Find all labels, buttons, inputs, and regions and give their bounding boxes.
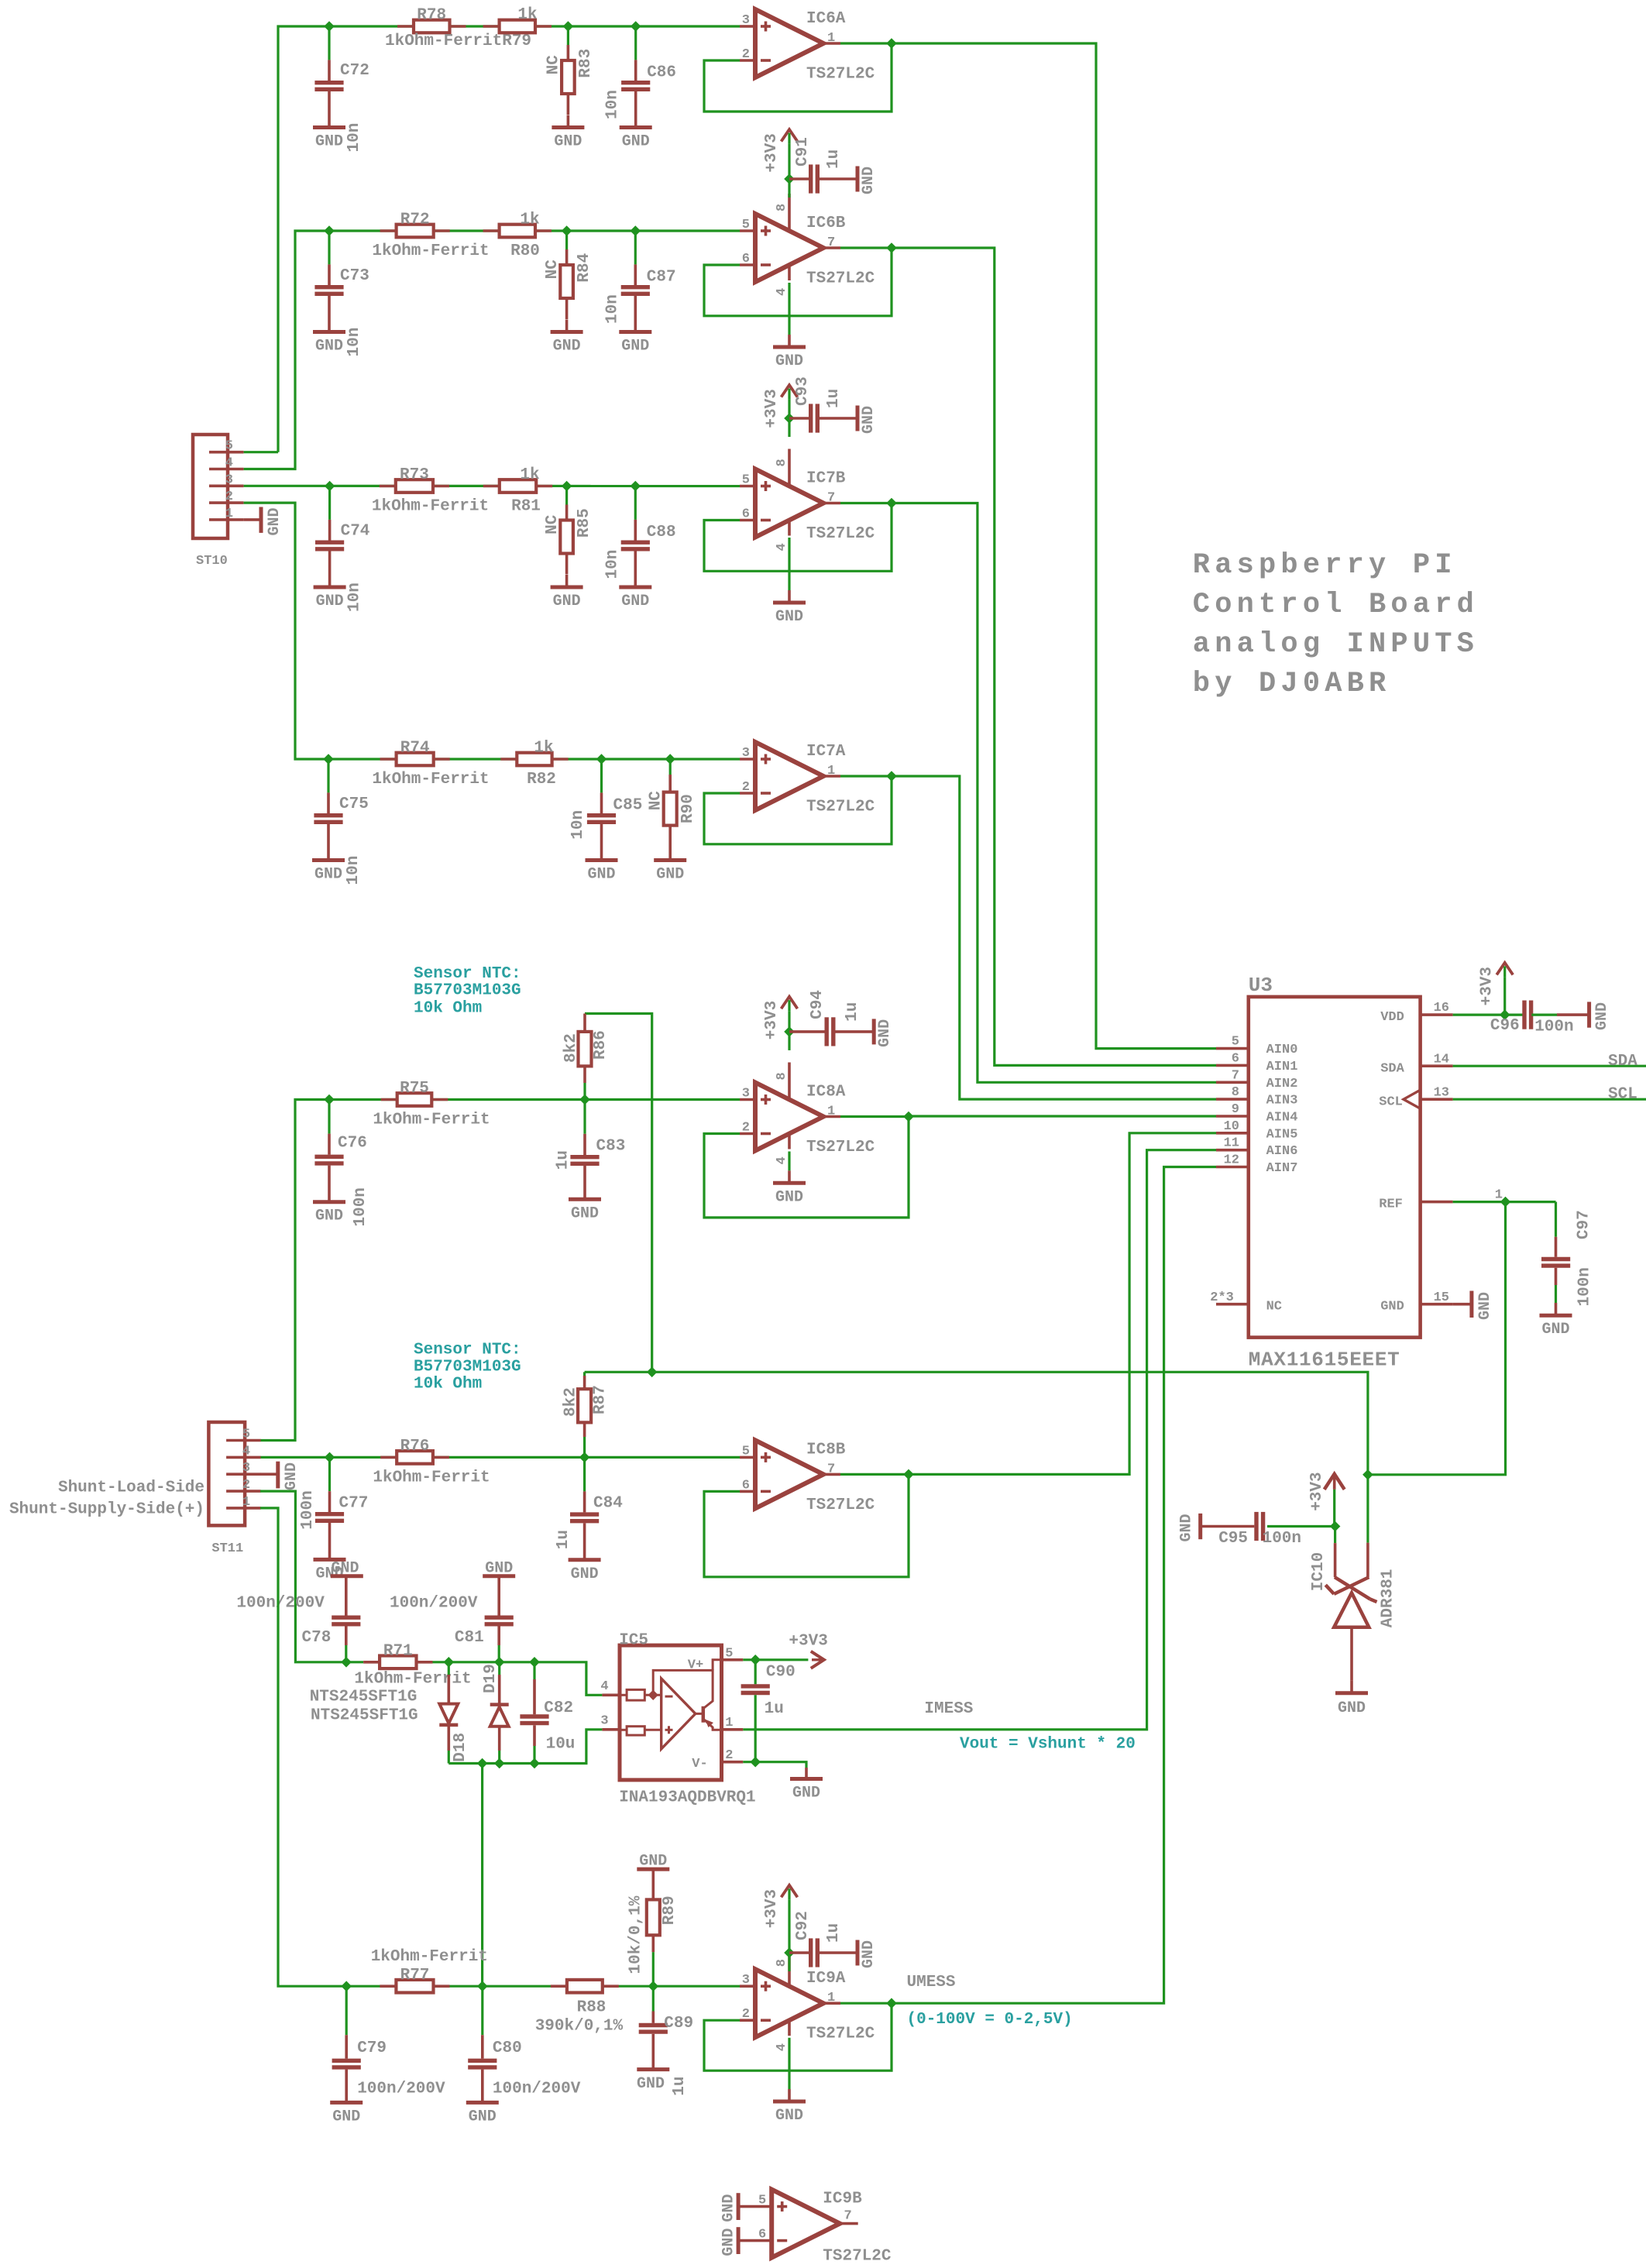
svg-text:GND: GND — [720, 2194, 738, 2222]
svg-text:R80: R80 — [510, 242, 540, 260]
svg-text:6: 6 — [742, 1478, 750, 1493]
svg-text:UMESS: UMESS — [907, 1974, 956, 1991]
svg-text:GND: GND — [860, 167, 878, 194]
svg-text:TS27L2C: TS27L2C — [806, 270, 875, 288]
svg-text:1kOhm-Ferrit: 1kOhm-Ferrit — [373, 1469, 490, 1486]
svg-text:R88: R88 — [577, 1999, 607, 2017]
capacitor C86 — [604, 26, 676, 128]
svg-text:C89: C89 — [664, 2015, 693, 2033]
resistor R71 — [354, 1642, 471, 1688]
svg-text:C96: C96 — [1490, 1017, 1520, 1035]
svg-text:10n: 10n — [603, 550, 621, 579]
svg-text:V-: V- — [692, 1757, 707, 1771]
note Sensor NTC 1 — [414, 965, 521, 1018]
IC U3 MAX11615EEET — [1210, 974, 1503, 1372]
svg-text:1u: 1u — [844, 1002, 861, 1022]
svg-text:GND: GND — [621, 338, 649, 356]
svg-text:AIN4: AIN4 — [1266, 1111, 1298, 1125]
svg-text:8k2: 8k2 — [562, 1033, 580, 1063]
capacitor C91 — [789, 137, 857, 193]
svg-text:GND: GND — [1541, 1321, 1569, 1338]
svg-text:5: 5 — [742, 1444, 750, 1459]
resistor R78 — [397, 7, 466, 33]
junction at (690,2276) — [529, 1758, 540, 1769]
op-amp IC7A — [740, 742, 875, 816]
svg-text:C83: C83 — [596, 1138, 626, 1156]
svg-text:GND: GND — [1178, 1514, 1196, 1541]
svg-text:GND: GND — [720, 2228, 738, 2256]
wire feedback loop — [704, 1474, 909, 1576]
junction at (843,2564) — [648, 1981, 659, 1991]
svg-text:GND: GND — [860, 406, 878, 434]
svg-text:GND: GND — [860, 1940, 878, 1968]
svg-text:GND: GND — [775, 1188, 803, 1206]
svg-text:10k Ohm: 10k Ohm — [414, 999, 482, 1017]
svg-text:NC: NC — [544, 259, 562, 280]
svg-text:GND: GND — [775, 352, 803, 370]
junction at (426,628) — [325, 481, 335, 492]
svg-text:1u: 1u — [555, 1530, 572, 1549]
svg-text:MAX11615EEET: MAX11615EEET — [1249, 1349, 1400, 1372]
wire IC8A output — [840, 1115, 909, 1118]
svg-text:U3: U3 — [1249, 974, 1273, 997]
resistor R77 — [371, 1948, 488, 1993]
wire diode clamp to IC5 pin3 — [448, 1730, 602, 1764]
svg-text:C84: C84 — [593, 1495, 623, 1513]
svg-text:7: 7 — [827, 235, 835, 250]
resistor R80 — [483, 211, 552, 261]
svg-text:AIN1: AIN1 — [1266, 1060, 1298, 1074]
junction at (1151,1002) — [886, 771, 897, 782]
svg-text:C92: C92 — [794, 1911, 812, 1940]
ground — [551, 575, 583, 610]
svg-text:ADR381: ADR381 — [1379, 1569, 1397, 1628]
junction at (424,980) — [323, 754, 334, 765]
svg-text:NC: NC — [647, 791, 665, 811]
junction at (1766,1904) — [1363, 1469, 1373, 1480]
svg-text:5: 5 — [1232, 1035, 1239, 1050]
junction at (1173,1442) — [903, 1112, 914, 1122]
svg-text:8: 8 — [775, 204, 789, 211]
svg-text:Control Board: Control Board — [1193, 589, 1479, 621]
svg-text:IC5: IC5 — [619, 1631, 648, 1649]
junction at (1944,1552) — [1500, 1197, 1511, 1208]
resistor R87 — [562, 1372, 610, 1457]
svg-text:4: 4 — [775, 288, 789, 296]
wire ST11 pin2 to R71 — [260, 1491, 346, 1662]
svg-text:NTS245SFT1G: NTS245SFT1G — [310, 1689, 418, 1706]
junction at (579,2146) — [444, 1657, 455, 1668]
svg-text:IC10: IC10 — [1310, 1552, 1328, 1591]
svg-text:5: 5 — [742, 473, 750, 488]
svg-text:2: 2 — [742, 47, 750, 62]
junction at (447,2564) — [341, 1981, 352, 1991]
svg-text:Shunt-Load-Side: Shunt-Load-Side — [58, 1479, 204, 1497]
svg-text:INA193AQDBVRQ1: INA193AQDBVRQ1 — [619, 1789, 755, 1807]
wire net SCL — [1453, 1098, 1646, 1101]
capacitor C78 — [236, 1559, 363, 1661]
svg-text:GND: GND — [775, 2107, 803, 2125]
svg-text:ST11: ST11 — [211, 1541, 243, 1556]
wire REF to NTC pullups — [585, 1372, 1368, 1475]
wire net AIN4 — [909, 1115, 1216, 1117]
svg-text:C95: C95 — [1218, 1530, 1248, 1548]
junction at (1151,320) — [886, 242, 897, 253]
svg-text:IC9A: IC9A — [806, 1970, 846, 1988]
svg-text:+3V3: +3V3 — [763, 1001, 781, 1039]
svg-text:1: 1 — [827, 764, 835, 778]
svg-text:3: 3 — [225, 472, 233, 487]
junction at (865,980) — [665, 754, 675, 765]
svg-text:C76: C76 — [338, 1135, 367, 1153]
svg-text:GND: GND — [283, 1462, 301, 1490]
capacitor C95 — [1201, 1512, 1335, 1548]
junction at (690,2146) — [529, 1657, 540, 1668]
svg-text:C91: C91 — [794, 137, 812, 167]
resistor R88 — [535, 1980, 624, 2036]
wire net AIN1 — [892, 248, 1216, 1065]
junction at (732,298) — [562, 225, 572, 236]
wire +3V3 to VDD — [1503, 977, 1506, 1015]
wire ST11 pin5 to IC8A input — [260, 1100, 740, 1441]
ground (U3 pin 15) — [1453, 1291, 1494, 1321]
svg-text:D18: D18 — [452, 1733, 469, 1762]
svg-text:TS27L2C: TS27L2C — [806, 799, 875, 816]
resistor R81 — [483, 466, 552, 516]
svg-text:SDA: SDA — [1608, 1053, 1637, 1070]
ground — [637, 2070, 669, 2094]
capacitor C74 — [315, 486, 369, 613]
wire IC6A output — [840, 42, 892, 44]
svg-text:2: 2 — [225, 490, 233, 504]
op-amp IC6B — [740, 194, 875, 296]
svg-text:1u: 1u — [554, 1150, 572, 1170]
svg-text:2: 2 — [742, 1121, 750, 1136]
wire +3V3 to junction — [788, 1899, 790, 1953]
junction at (1019,1332) — [784, 1026, 795, 1037]
svg-text:3: 3 — [242, 1461, 250, 1476]
svg-text:1: 1 — [725, 1716, 733, 1730]
wire ST11 pin1 to IC9A input — [260, 1508, 740, 1986]
svg-text:1u: 1u — [765, 1700, 784, 1718]
wire IC7B pin4 to GND — [788, 538, 790, 590]
wire IC8A pin4 to GND — [788, 1152, 790, 1171]
op-amp IC8B — [740, 1440, 875, 1514]
svg-text:100n: 100n — [1263, 1530, 1301, 1548]
wire IC9A pin4 to GND — [788, 2038, 790, 2089]
svg-text:1: 1 — [827, 1105, 835, 1119]
title text — [1193, 549, 1479, 700]
svg-text:100n/200V: 100n/200V — [493, 2080, 581, 2098]
svg-text:GND: GND — [553, 338, 581, 356]
svg-text:6: 6 — [758, 2228, 766, 2242]
svg-text:1kOhm-Ferrit: 1kOhm-Ferrit — [372, 242, 489, 260]
svg-text:100n/200V: 100n/200V — [236, 1594, 325, 1612]
svg-text:10n: 10n — [603, 294, 621, 324]
svg-text:R85: R85 — [576, 508, 593, 538]
supply +3V3 — [763, 997, 798, 1040]
svg-text:R76: R76 — [400, 1438, 430, 1455]
svg-text:IC7A: IC7A — [806, 743, 846, 761]
svg-text:IC8A: IC8A — [806, 1084, 846, 1101]
ground — [773, 1170, 806, 1206]
svg-text:TS27L2C: TS27L2C — [806, 525, 875, 543]
wire IC5 V- to GND — [743, 1762, 806, 1768]
svg-text:GND: GND — [656, 866, 684, 884]
svg-text:100n/200V: 100n/200V — [390, 1594, 478, 1612]
junction at (1943,1310) — [1500, 1009, 1510, 1020]
svg-text:1: 1 — [827, 1991, 835, 2005]
junction at (1019,2521) — [784, 1947, 795, 1958]
svg-text:5: 5 — [242, 1428, 250, 1442]
svg-text:GND: GND — [876, 1019, 894, 1047]
capacitor C84 — [555, 1457, 623, 1559]
svg-text:15: 15 — [1434, 1290, 1449, 1305]
svg-text:GND: GND — [315, 133, 343, 151]
capacitor C87 — [603, 231, 675, 332]
svg-text:R90: R90 — [679, 794, 697, 823]
svg-text:C81: C81 — [455, 1629, 484, 1647]
svg-text:VDD: VDD — [1380, 1010, 1404, 1025]
svg-text:GND: GND — [332, 2108, 360, 2125]
wire feedback loop — [704, 503, 892, 572]
svg-text:IC6B: IC6B — [806, 215, 846, 232]
svg-text:AIN3: AIN3 — [1266, 1094, 1298, 1108]
svg-text:6: 6 — [1232, 1051, 1239, 1066]
svg-text:REF: REF — [1379, 1198, 1403, 1212]
svg-text:1k: 1k — [520, 211, 539, 229]
svg-text:C77: C77 — [339, 1494, 369, 1512]
wire IC9A output — [840, 2002, 892, 2005]
ground (ST11 pin 3) — [260, 1462, 301, 1490]
wire IC5 V+ to +3V3 — [743, 1658, 808, 1661]
svg-text:GND: GND — [316, 593, 344, 610]
voltage reference IC10 ADR381 — [1310, 1543, 1397, 1681]
svg-text:14: 14 — [1434, 1052, 1449, 1067]
capacitor C80 — [468, 1986, 581, 2102]
wire +3V3 to junction — [788, 144, 790, 179]
wire junction to pin 8 — [788, 418, 790, 437]
svg-text:GND: GND — [1338, 1699, 1366, 1717]
junction at (1724,1970) — [1330, 1521, 1341, 1532]
svg-text:analog INPUTS: analog INPUTS — [1193, 628, 1479, 661]
wire ST10 pin4 to IC6B input — [244, 231, 740, 469]
capacitor C75 — [314, 759, 368, 885]
wire ST10 pin3 to IC7B input — [244, 485, 740, 487]
svg-text:TS27L2C: TS27L2C — [806, 1497, 875, 1514]
svg-text:8: 8 — [775, 1959, 789, 1967]
svg-text:NTS245SFT1G: NTS245SFT1G — [311, 1707, 418, 1725]
svg-text:+3V3: +3V3 — [763, 133, 781, 172]
wire ST10 pin2 to IC7A input — [244, 503, 740, 759]
svg-text:C73: C73 — [340, 267, 369, 285]
svg-text:100n: 100n — [352, 1187, 369, 1226]
junction at (732,628) — [562, 481, 572, 492]
svg-text:C97: C97 — [1576, 1210, 1593, 1239]
junction at (842,1771) — [647, 1367, 658, 1378]
wire C95 node to IC10 — [1334, 1527, 1336, 1544]
junction at (645,2146) — [494, 1657, 505, 1668]
wire R86 top to REF line — [585, 1014, 652, 1373]
ground — [857, 167, 878, 195]
svg-text:16: 16 — [1434, 1001, 1449, 1015]
diode D18 — [439, 1662, 469, 1764]
junction at (776,980) — [596, 754, 607, 765]
svg-text:AIN2: AIN2 — [1266, 1077, 1298, 1091]
svg-text:10n: 10n — [345, 123, 363, 153]
resistor R75 — [373, 1080, 490, 1129]
svg-text:10n: 10n — [604, 90, 622, 119]
resistor R85 (NC) — [544, 486, 593, 575]
junction at (1019,540) — [784, 413, 795, 424]
svg-text:GND: GND — [775, 608, 803, 626]
svg-text:GND: GND — [266, 507, 283, 535]
junction at (733,34) — [563, 21, 574, 32]
svg-text:R81: R81 — [511, 498, 541, 516]
svg-text:9: 9 — [1232, 1102, 1239, 1117]
junction at (975,2143) — [750, 1655, 761, 1665]
svg-text:C75: C75 — [339, 796, 369, 813]
capacitor C73 — [314, 231, 369, 357]
junction at (820,298) — [631, 225, 641, 236]
svg-text:2: 2 — [742, 780, 750, 795]
svg-text:C86: C86 — [647, 64, 676, 82]
junction at (623,2564) — [477, 1981, 488, 1991]
svg-text:IC8B: IC8B — [806, 1441, 846, 1459]
resistor R83 (NC) — [545, 26, 595, 115]
capacitor C92 — [789, 1911, 857, 1967]
ground — [857, 406, 878, 435]
svg-text:4: 4 — [242, 1444, 250, 1459]
wire feedback loop — [704, 776, 892, 844]
wire junction to pin 8 — [788, 1953, 790, 1971]
resistor R76 — [373, 1438, 490, 1487]
svg-text:7: 7 — [827, 1462, 835, 1476]
svg-text:R87: R87 — [592, 1385, 610, 1414]
svg-text:100n/200V: 100n/200V — [357, 2080, 445, 2098]
svg-text:R89: R89 — [661, 1895, 679, 1925]
svg-text:IC6A: IC6A — [806, 10, 846, 28]
svg-text:5: 5 — [742, 218, 750, 232]
svg-text:10n: 10n — [345, 856, 363, 885]
capacitor C85 — [569, 759, 642, 861]
diode D19 — [482, 1662, 509, 1764]
svg-text:C90: C90 — [766, 1663, 796, 1681]
op-amp IC9A — [740, 1949, 875, 2051]
svg-text:2: 2 — [725, 1748, 733, 1763]
svg-text:100n: 100n — [1534, 1019, 1573, 1036]
svg-text:8: 8 — [1232, 1085, 1239, 1100]
wire feedback loop — [704, 43, 892, 112]
svg-text:2: 2 — [242, 1478, 250, 1493]
svg-text:12: 12 — [1224, 1153, 1239, 1168]
svg-text:R74: R74 — [400, 740, 430, 758]
ground (ST10 pin 1) — [244, 507, 283, 536]
supply +3V3 — [763, 129, 798, 173]
ground — [1589, 1002, 1611, 1030]
svg-text:TS27L2C: TS27L2C — [823, 2248, 892, 2264]
capacitor C97 — [1541, 1202, 1594, 1316]
wire ST11 pin4 to IC8B input — [260, 1456, 740, 1459]
svg-text:10: 10 — [1224, 1119, 1239, 1134]
ground (IC9B pin 5) — [720, 2193, 739, 2222]
wire net UMESS to AIN7 — [892, 1167, 1216, 2004]
svg-text:TS27L2C: TS27L2C — [806, 2026, 875, 2043]
svg-text:TS27L2C: TS27L2C — [806, 1139, 875, 1156]
supply +3V3 — [763, 385, 798, 428]
svg-text:IMESS: IMESS — [924, 1700, 973, 1718]
svg-text:GND: GND — [1476, 1292, 1494, 1320]
junction at (425,34) — [324, 21, 335, 32]
svg-text:SDA: SDA — [1380, 1061, 1404, 1076]
resistor 1k — [483, 6, 552, 33]
svg-text:+3V3: +3V3 — [763, 1889, 781, 1928]
junction at (820,628) — [631, 481, 641, 492]
svg-text:AIN5: AIN5 — [1266, 1127, 1298, 1142]
svg-text:100n: 100n — [299, 1490, 317, 1529]
svg-text:+3V3: +3V3 — [789, 1633, 827, 1651]
svg-text:GND: GND — [571, 1565, 599, 1583]
svg-text:1: 1 — [827, 31, 835, 46]
ground — [1335, 1681, 1368, 1717]
svg-text:SCL: SCL — [1379, 1094, 1403, 1109]
svg-text:1k: 1k — [520, 466, 539, 484]
wire REF down to reference node — [1368, 1202, 1506, 1475]
svg-text:GND: GND — [469, 2108, 497, 2125]
svg-text:10u: 10u — [546, 1736, 576, 1754]
svg-text:IC7B: IC7B — [806, 470, 846, 488]
resistor R82 — [500, 740, 568, 789]
wire net AIN0 — [892, 43, 1216, 1049]
svg-text:R73: R73 — [400, 466, 429, 484]
svg-text:GND: GND — [315, 338, 343, 356]
svg-text:4: 4 — [600, 1679, 608, 1694]
junction at (975,2275) — [750, 1757, 761, 1768]
svg-text:GND: GND — [553, 593, 581, 610]
capacitor C79 — [332, 1986, 445, 2102]
svg-text:GND: GND — [1593, 1002, 1611, 1030]
wire U3 REF — [1453, 1201, 1556, 1203]
ground (IC9B pin 6) — [720, 2227, 739, 2256]
wire net IMESS to AIN6 — [743, 1150, 1216, 1730]
svg-text:3: 3 — [742, 746, 750, 761]
supply +3V3 — [763, 1885, 798, 1929]
wire ST10 pin5 to IC6A input — [278, 26, 740, 452]
wire R71 to IC5 pin4 — [433, 1662, 603, 1696]
junction at (447,2146) — [341, 1657, 352, 1668]
wire +3V3 to junction — [788, 1011, 790, 1032]
svg-text:1kOhm-Ferrit: 1kOhm-Ferrit — [372, 771, 489, 789]
svg-text:R84: R84 — [576, 253, 593, 283]
svg-text:+3V3: +3V3 — [1479, 967, 1497, 1005]
svg-text:3: 3 — [742, 1973, 750, 1988]
svg-text:2: 2 — [742, 2007, 750, 2022]
svg-text:NC: NC — [1266, 1300, 1282, 1314]
capacitor C77 — [299, 1457, 369, 1559]
capacitor C90 — [741, 1660, 796, 1762]
svg-text:SCL: SCL — [1608, 1086, 1637, 1104]
svg-text:100n: 100n — [1576, 1267, 1594, 1306]
capacitor C82 — [520, 1662, 575, 1764]
svg-text:6: 6 — [742, 252, 750, 266]
svg-text:1u: 1u — [825, 389, 843, 408]
svg-text:by DJ0ABR: by DJ0ABR — [1193, 668, 1391, 700]
svg-text:R72: R72 — [400, 211, 430, 229]
svg-text:5: 5 — [225, 439, 233, 454]
svg-text:(0-100V = 0-2,5V): (0-100V = 0-2,5V) — [907, 2011, 1073, 2029]
ground — [790, 1768, 823, 1802]
ground — [874, 1019, 894, 1047]
